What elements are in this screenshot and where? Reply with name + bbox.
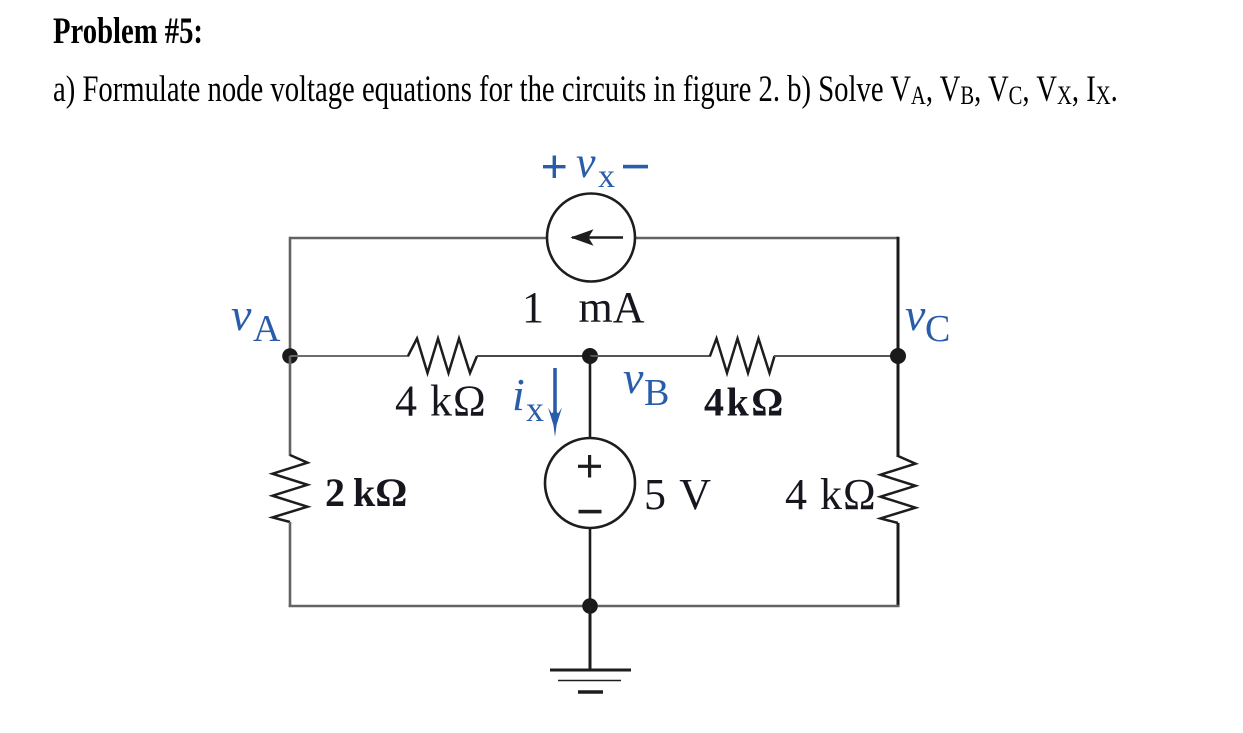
label 5 V: [644, 470, 712, 519]
wire voltage source to ground junction: [589, 527, 592, 606]
label 4 kOhm for R4: [785, 470, 877, 519]
svg-text:C: C: [925, 308, 950, 350]
svg-text:i: i: [512, 369, 525, 420]
svg-text:4 kΩ: 4 kΩ: [785, 470, 877, 519]
current source I1 1 mA: [547, 194, 635, 282]
resistor R3 2kOhm vertical left: [273, 455, 308, 522]
wire right vertical middle: [897, 356, 900, 457]
svg-text:v: v: [231, 289, 252, 340]
wire middle VB to R2: [590, 355, 711, 357]
wire middle VA to R1: [290, 355, 409, 357]
wire left vertical lower: [289, 522, 292, 607]
label vC: [905, 289, 950, 350]
label ix with arrow: [512, 369, 544, 429]
label vA: [231, 289, 281, 350]
svg-text:4kΩ: 4kΩ: [704, 380, 786, 425]
voltage source V1 5 V: [545, 438, 635, 528]
heading Problem #5:: [53, 10, 203, 53]
svg-text:A: A: [253, 308, 281, 350]
node VC: [890, 348, 906, 364]
label 1 mA: [522, 283, 645, 332]
wire middle R2 to VC: [774, 355, 898, 357]
wire left vertical middle: [289, 356, 292, 456]
resistor R2 4kOhm horizontal: [710, 339, 775, 374]
wire right vertical lower: [897, 523, 900, 607]
svg-text:x: x: [526, 389, 544, 429]
wire left vertical upper: [289, 237, 292, 356]
resistor R1 4 kOhm horizontal: [408, 339, 477, 374]
resistor R4 4 kOhm vertical right: [881, 456, 916, 523]
svg-text:4 kΩ: 4 kΩ: [395, 377, 487, 426]
current arrow ix (blue, downward): [548, 368, 562, 437]
svg-text:2 kΩ: 2 kΩ: [325, 470, 407, 515]
svg-text:1 mA: 1 mA: [522, 283, 645, 332]
label 4 kOhm for R1: [395, 377, 487, 426]
svg-text:B: B: [644, 372, 669, 414]
svg-text:x: x: [598, 158, 615, 195]
ground: [550, 606, 631, 692]
label 2kOhm for R3 (bold): [325, 470, 407, 515]
label + vx - above current source: [543, 138, 648, 195]
svg-text:v: v: [623, 352, 644, 403]
wire bottom horizontal: [289, 605, 900, 608]
svg-text:v: v: [576, 138, 596, 187]
problem statement text: [53, 68, 1118, 111]
wire top-left horizontal: [290, 237, 548, 240]
label vB: [623, 352, 669, 414]
wire right vertical upper: [897, 237, 900, 356]
wire VB down to voltage source: [589, 356, 592, 439]
node VA: [282, 348, 298, 364]
wire top-right horizontal: [635, 237, 898, 240]
wire middle R1 to VB: [477, 355, 590, 357]
svg-text:v: v: [905, 289, 926, 340]
label 4kOhm for R2 (bold): [704, 380, 786, 425]
node ground junction: [582, 598, 598, 614]
svg-text:5 V: 5 V: [644, 470, 712, 519]
node VB: [582, 348, 598, 364]
